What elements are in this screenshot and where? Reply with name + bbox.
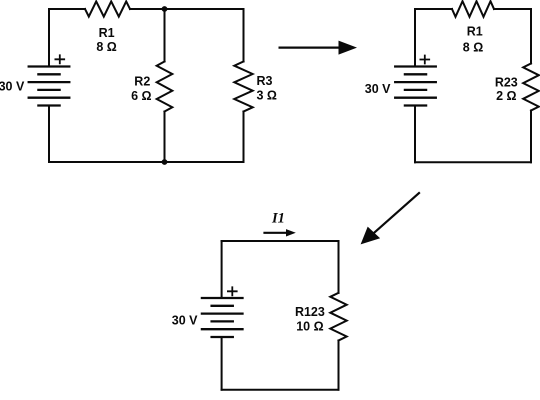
svg-text:30 V: 30 V	[0, 80, 25, 94]
wire left lower segment circuit 2	[414, 106, 416, 163]
battery plus sign circuit 1	[55, 55, 64, 63]
arrow from circuit 1 to circuit 2	[280, 41, 357, 55]
battery V2 30 V	[395, 67, 436, 106]
wire right lower segment circuit 1	[243, 112, 245, 163]
svg-text:10 Ω: 10 Ω	[296, 319, 323, 333]
arrow from circuit 2 to circuit 3	[361, 193, 419, 244]
svg-text:R1: R1	[99, 26, 115, 40]
wire middle branch upper segment circuit 1	[164, 9, 166, 62]
svg-text:R23: R23	[495, 76, 518, 90]
svg-text:3 Ω: 3 Ω	[257, 88, 277, 102]
wire right lower segment circuit 3	[338, 341, 340, 390]
wire top segment circuit 3	[222, 240, 339, 242]
battery V1 30 V	[29, 67, 70, 106]
wire left lower segment circuit 1	[48, 106, 50, 163]
node bottom junction circuit 1	[162, 159, 168, 165]
wire bottom segment circuit 2	[415, 161, 531, 163]
svg-text:6 Ω: 6 Ω	[131, 89, 151, 103]
wire top-left segment circuit 2	[415, 8, 452, 10]
svg-text:2 Ω: 2 Ω	[496, 89, 516, 103]
wire left upper segment circuit 3	[221, 241, 223, 298]
resistor R23	[523, 64, 539, 111]
wire middle branch lower segment circuit 1	[164, 112, 166, 163]
battery plus sign circuit 2	[420, 56, 429, 64]
wire top-right segment circuit 2	[494, 8, 531, 10]
wire left upper segment circuit 2	[414, 9, 416, 67]
resistor R1 (circuit 2)	[452, 1, 494, 17]
battery V3 30 V	[202, 298, 243, 337]
current arrow I1 circuit 3	[265, 229, 296, 236]
resistor R3	[234, 62, 252, 112]
wire bottom segment circuit 3	[222, 389, 339, 391]
svg-text:R3: R3	[257, 74, 273, 88]
wire top-left segment circuit 1	[49, 8, 85, 10]
svg-text:R1: R1	[467, 24, 483, 38]
resistor R1	[85, 1, 130, 16]
svg-text:30 V: 30 V	[172, 314, 198, 328]
wire left lower segment circuit 3	[221, 337, 223, 390]
wire right upper segment circuit 3	[338, 241, 340, 293]
svg-text:8 Ω: 8 Ω	[96, 40, 116, 54]
svg-text:I1: I1	[271, 211, 285, 227]
resistor R123	[330, 293, 346, 341]
wire left upper segment circuit 1	[48, 9, 50, 67]
wire right upper segment circuit 2	[530, 9, 532, 64]
svg-text:R2: R2	[134, 75, 150, 89]
battery plus sign circuit 3	[228, 287, 237, 295]
wire right upper segment circuit 1	[243, 9, 245, 62]
wire top-right segment circuit 1	[165, 8, 244, 10]
resistor R2	[157, 62, 173, 112]
svg-text:8 Ω: 8 Ω	[463, 41, 483, 55]
wire right lower segment circuit 2	[530, 111, 532, 163]
svg-text:30 V: 30 V	[365, 82, 391, 96]
node top junction circuit 1	[162, 6, 168, 12]
wire bottom-right segment circuit 1	[165, 161, 244, 163]
wire bottom-left segment circuit 1	[49, 161, 165, 163]
wire top-middle segment circuit 1	[130, 8, 165, 10]
svg-text:R123: R123	[295, 305, 325, 319]
